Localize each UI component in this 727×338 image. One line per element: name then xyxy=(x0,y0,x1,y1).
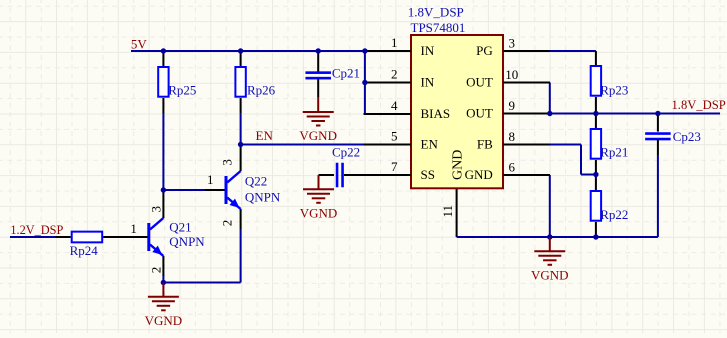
svg-text:VGND: VGND xyxy=(531,268,569,283)
svg-text:OUT: OUT xyxy=(466,105,493,120)
svg-text:OUT: OUT xyxy=(466,74,493,89)
svg-text:3: 3 xyxy=(508,36,515,51)
svg-text:Q22: Q22 xyxy=(245,174,267,189)
svg-text:7: 7 xyxy=(391,159,398,174)
svg-text:6: 6 xyxy=(508,160,515,175)
svg-text:PG: PG xyxy=(476,43,493,58)
svg-text:11: 11 xyxy=(440,205,455,218)
svg-text:GND: GND xyxy=(451,150,466,180)
svg-text:GND: GND xyxy=(465,167,493,182)
svg-text:1: 1 xyxy=(207,172,214,187)
svg-text:Cp22: Cp22 xyxy=(332,145,360,160)
svg-text:Cp23: Cp23 xyxy=(673,129,701,144)
svg-text:3: 3 xyxy=(149,206,164,213)
svg-text:QNPN: QNPN xyxy=(169,234,205,249)
svg-text:10: 10 xyxy=(505,67,518,82)
svg-text:VGND: VGND xyxy=(299,128,337,143)
svg-text:4: 4 xyxy=(391,98,398,113)
svg-text:VGND: VGND xyxy=(300,206,338,221)
svg-text:2: 2 xyxy=(220,220,235,227)
svg-text:Rp22: Rp22 xyxy=(600,207,628,222)
svg-text:9: 9 xyxy=(508,98,515,113)
svg-text:Rp24: Rp24 xyxy=(70,243,99,258)
svg-text:VGND: VGND xyxy=(145,313,183,328)
svg-text:Rp23: Rp23 xyxy=(600,83,628,98)
svg-text:1.8V_DSP: 1.8V_DSP xyxy=(408,5,464,20)
svg-text:3: 3 xyxy=(220,159,235,166)
svg-text:SS: SS xyxy=(421,167,435,182)
svg-text:IN: IN xyxy=(421,74,435,89)
svg-text:IN: IN xyxy=(421,43,435,58)
svg-text:QNPN: QNPN xyxy=(245,190,281,205)
svg-text:1.2V_DSP: 1.2V_DSP xyxy=(10,223,63,237)
svg-text:Rp26: Rp26 xyxy=(247,83,276,98)
svg-text:EN: EN xyxy=(256,128,274,143)
svg-text:Rp21: Rp21 xyxy=(600,145,628,160)
svg-text:5V: 5V xyxy=(131,36,148,51)
svg-text:Q21: Q21 xyxy=(169,220,191,235)
svg-text:2: 2 xyxy=(149,267,164,274)
svg-text:1: 1 xyxy=(130,221,137,236)
svg-text:BIAS: BIAS xyxy=(421,106,451,121)
svg-text:Rp25: Rp25 xyxy=(168,83,196,98)
svg-text:EN: EN xyxy=(421,136,439,151)
svg-text:TPS74801: TPS74801 xyxy=(411,20,466,35)
svg-text:1: 1 xyxy=(391,35,398,50)
svg-text:5: 5 xyxy=(391,129,398,144)
svg-text:8: 8 xyxy=(508,129,515,144)
svg-text:FB: FB xyxy=(477,136,493,151)
svg-text:2: 2 xyxy=(391,67,398,82)
svg-text:Cp21: Cp21 xyxy=(332,66,360,81)
svg-text:1.8V_DSP: 1.8V_DSP xyxy=(672,98,726,112)
